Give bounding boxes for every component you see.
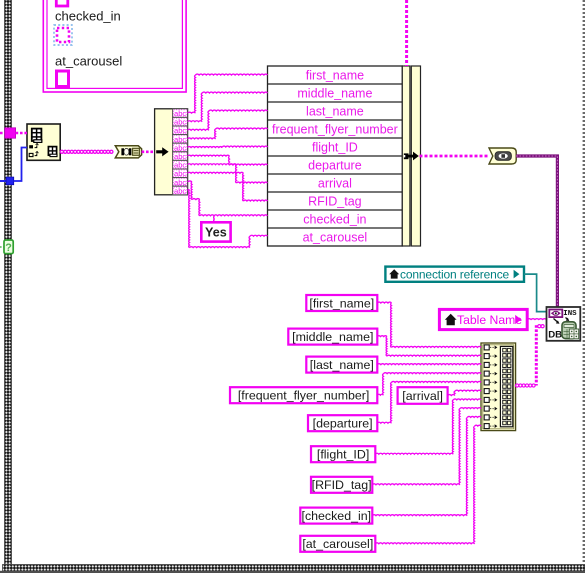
svg-text:[departure]: [departure] [313, 417, 373, 431]
boolean constant (partial, top) [56, 0, 68, 6]
string constant [frequent_flyer_number] [230, 387, 377, 403]
svg-text:at_carousel: at_carousel [303, 230, 368, 244]
svg-text:[middle_name]: [middle_name] [292, 330, 373, 344]
wire (connection reference to DB insert) [524, 274, 547, 312]
svg-text:RFID_tag: RFID_tag [308, 194, 362, 208]
Table Name constant [439, 309, 527, 329]
string constant [RFID_tag] [311, 477, 372, 493]
svg-text:[last_name]: [last_name] [310, 358, 374, 372]
DB insert table glyph [562, 322, 576, 339]
boolean constant at_carousel [57, 71, 69, 87]
while loop border bottom strip [3, 565, 585, 572]
svg-text:at_carousel: at_carousel [55, 54, 122, 69]
string constant [arrival] [398, 387, 448, 404]
DB insert arrows [554, 319, 558, 323]
wire (cluster into bundle from top) [405, 0, 408, 66]
wire (string [last_name] to build array) [377, 363, 481, 366]
string constant [departure] [308, 415, 377, 431]
svg-text:checked_in: checked_in [55, 9, 121, 24]
wire (cluster tunnel to subVI) [16, 132, 27, 135]
string constant [middle_name] [288, 329, 377, 345]
svg-text:first_name: first_name [306, 68, 364, 82]
svg-text:checked_in: checked_in [303, 212, 366, 226]
svg-text:DB: DB [548, 330, 562, 341]
wire (blue numeric to subVI) [14, 148, 27, 182]
svg-text:Yes: Yes [205, 226, 227, 240]
wire (string abc3 to last_name) [188, 110, 268, 130]
window bottom edge [0, 571, 585, 573]
wire (string array build-array to DB insert) [516, 325, 545, 387]
index array node [115, 146, 141, 158]
loop conditional terminal (green ?) [4, 240, 13, 254]
svg-text:connection reference: connection reference [400, 267, 510, 281]
svg-text:flight_ID: flight_ID [312, 140, 358, 154]
wire (variant to DB insert) [516, 156, 557, 307]
To Variant node [489, 148, 516, 164]
wire (string abc6 to departure) [188, 155, 268, 165]
svg-text:[at_carousel]: [at_carousel] [302, 537, 373, 551]
wire (cluster bundle to To-Variant) [420, 155, 490, 158]
wire (string [flight_ID] to build array) [375, 399, 481, 454]
subVI glyph grid bottom-right [48, 147, 56, 156]
unbundle node (10 string outputs) [155, 109, 188, 195]
subVI glyph grid top-left [32, 129, 42, 141]
tunnel (cluster, magenta) [5, 128, 16, 138]
wire (string Table Name to DB insert) [527, 318, 546, 321]
wire (string [at_carousel] to build array) [375, 425, 481, 544]
wire (cluster stub into loop) [0, 132, 5, 135]
string constant [first_name] [306, 295, 377, 311]
wire (array-of-cluster chain subVI to index node) [60, 150, 113, 153]
wire (string [departure] to build array) [377, 381, 481, 423]
wire (blue numeric stub) [0, 180, 6, 182]
wire (string abc10 to at_carousel row) [188, 190, 268, 248]
wire (string [first_name] to build array) [377, 302, 481, 347]
wire (cluster index node to unbundle) [142, 151, 156, 154]
wire (string abc8 to RFID_tag) [188, 172, 268, 201]
svg-text:[flight_ID]: [flight_ID] [317, 448, 369, 462]
svg-text:?: ? [5, 242, 12, 254]
svg-text:middle_name: middle_name [297, 86, 372, 100]
svg-text:[RFID_tag]: [RFID_tag] [312, 478, 372, 492]
wire (string [RFID_tag] to build array) [372, 408, 481, 485]
svg-text:INS: INS [563, 310, 577, 318]
string constant [checked_in] [300, 508, 372, 524]
string constant [at_carousel] [300, 536, 375, 552]
string constant [last_name] [306, 357, 377, 373]
tunnel (numeric, blue) [6, 177, 14, 185]
wire (string abc2 to middle_name) [188, 92, 268, 122]
string constant [flight_ID] [311, 446, 375, 462]
wire (string [arrival] to build array) [448, 390, 481, 395]
bundle output arrow [404, 153, 409, 159]
wire (Yes constant branch) [213, 216, 216, 223]
bundle by name node (rows) [268, 66, 403, 246]
wire (string abc4 to frequent_flyer_number) [188, 128, 268, 139]
svg-text:departure: departure [308, 158, 362, 172]
svg-text:[first_name]: [first_name] [309, 296, 374, 310]
wire (string abc9 to checked_in row) [188, 181, 268, 216]
wire (string abc5 to flight_ID) [188, 146, 268, 147]
wire (string abc7 to arrival) [188, 164, 268, 183]
svg-text:arrival: arrival [318, 176, 352, 190]
svg-text:last_name: last_name [306, 104, 364, 118]
subVI glyph square-arrow 1 [29, 145, 33, 148]
svg-text:[arrival]: [arrival] [402, 389, 443, 403]
subVI glyph square-arrow 2 [29, 153, 33, 156]
while loop border left strip [5, 0, 12, 566]
bundle by name node (output columns) [402, 66, 410, 246]
while loop border right edge (dashed) [583, 0, 585, 564]
connection reference constant [385, 267, 524, 282]
build array node (10 string inputs) [481, 343, 516, 431]
svg-text:frequent_flyer_number: frequent_flyer_number [272, 122, 398, 136]
DB insert variant glyph [549, 310, 562, 318]
wire (green stub) [0, 246, 4, 248]
wire (string [middle_name] to build array) [377, 336, 481, 356]
svg-text:Table Name: Table Name [457, 313, 522, 327]
svg-text:abc: abc [174, 186, 186, 195]
subVI icon (cluster array builder) [27, 124, 60, 160]
svg-text:[checked_in]: [checked_in] [302, 509, 372, 523]
boolean constant checked_in (selected, dashed) [54, 25, 72, 45]
wire (string [checked_in] to build array) [372, 416, 481, 515]
wire (string abc1 to first_name) [188, 74, 268, 113]
string constant Yes [201, 222, 230, 241]
cluster constant frame [43, 0, 186, 92]
wire (string [frequent_flyer_number] to build array) [377, 373, 481, 396]
unbundle input arrow [156, 147, 168, 156]
svg-text:[frequent_flyer_number]: [frequent_flyer_number] [238, 389, 370, 403]
DB Tools Insert Data VI [547, 307, 581, 341]
